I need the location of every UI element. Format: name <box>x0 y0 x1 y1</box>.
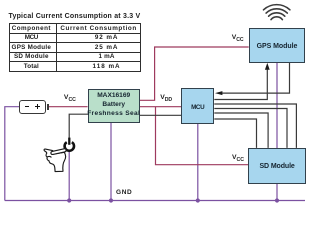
consumption table title <box>9 13 141 20</box>
wire: VCC branch down to SD module (crimson) <box>156 107 249 165</box>
wire: MCU to GPS data (dark, arrow into GPS) <box>214 69 267 100</box>
junction dot: pushbutton/GND <box>67 198 71 202</box>
wire: MAX16169 to MCU signal (dark) <box>140 114 181 116</box>
VCC label (GPS module) <box>232 35 244 44</box>
consumption table <box>9 23 141 71</box>
wire: GPS module GND down to GND bus (passes behind SD module) <box>276 63 278 201</box>
hand pressing the power button <box>44 149 66 172</box>
power button symbol (pressed by hand) <box>65 138 74 151</box>
wire: MCU GND pin down to GND bus <box>197 124 199 201</box>
wire: GPS to MCU data (dark, arrow into MCU) <box>221 63 290 93</box>
battery plus sign <box>35 106 40 108</box>
junction dot: MAX GND <box>109 198 113 202</box>
wire: pushbutton to GND bus (purple, under hand icon) <box>68 151 70 201</box>
SD module box <box>248 148 305 184</box>
wire: MAX16169 VCC up to GPS module (crimson) <box>140 47 249 100</box>
wire: GND bus (bottom horizontal) <box>5 200 305 202</box>
battery B1 <box>19 100 46 114</box>
wire: MAX16169 GND pin down to GND bus <box>110 123 112 201</box>
MAX16169 battery freshness seal box U1 <box>88 89 140 123</box>
junction dot: MCU GND <box>196 198 200 202</box>
wire: MCU to SD data line 4 (dark) <box>214 119 256 148</box>
wire: MCU to SD data line 1 (dark) <box>214 104 296 148</box>
arrowhead into GPS <box>265 63 270 70</box>
wifi / RF signal icon above GPS module <box>264 5 290 20</box>
wire: MCU to SD data line 3 (dark) <box>214 113 268 148</box>
wire: MAX16169 pushbutton pin to power button (dark) <box>69 114 87 140</box>
VCC label (battery to MAX16169) <box>64 95 76 104</box>
junction dot: GPS/SD GND <box>275 198 279 202</box>
wire: MCU to SD data line 2 (dark) <box>214 109 287 148</box>
GND label <box>116 190 132 197</box>
wire: MAX16169 VDD to MCU (crimson) <box>140 106 181 108</box>
wire: battery positive to MAX16169 (VCC, crimson) <box>49 106 88 108</box>
MCU box <box>181 88 214 124</box>
battery positive terminal nub <box>47 104 49 110</box>
GPS module box <box>249 28 306 63</box>
wire: battery negative to GND rail (purple, left side) <box>5 107 19 201</box>
arrowhead into MCU <box>215 91 222 95</box>
VDD label (MAX16169 to MCU) <box>160 95 172 104</box>
battery minus sign <box>25 106 29 108</box>
VCC label (SD module) <box>232 155 244 164</box>
